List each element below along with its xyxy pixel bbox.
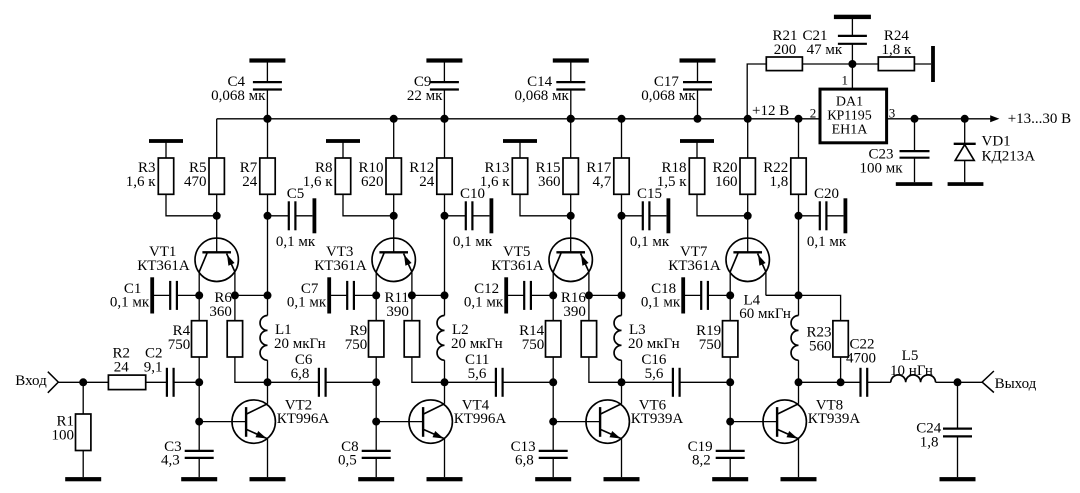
wire R20 bus to R21 (747, 64, 766, 119)
label +13...30 В (1008, 111, 1071, 127)
inductor L4 (739, 293, 798, 383)
resistor R23 (799, 295, 849, 382)
capacitor C6 (268, 352, 377, 397)
ground C12 (504, 277, 508, 313)
ground above R13 (503, 139, 537, 143)
pin 3 (889, 105, 896, 120)
ground C18 (681, 277, 685, 313)
resistor R20 (712, 119, 755, 216)
svg-text:24: 24 (242, 174, 258, 190)
capacitor C10 (445, 186, 493, 250)
wire (802, 63, 852, 65)
ground C20 (844, 198, 848, 233)
svg-text:4,3: 4,3 (161, 452, 180, 468)
transistor VT3 КТ361А (314, 216, 415, 296)
wire (798, 216, 800, 296)
svg-text:2: 2 (810, 105, 817, 120)
node R8 R10 junction (390, 212, 398, 220)
svg-text:20 мкГн: 20 мкГн (628, 336, 680, 352)
wire (444, 216, 446, 296)
svg-text:5,6: 5,6 (645, 366, 664, 382)
capacitor C24 (916, 382, 972, 477)
svg-text:470: 470 (184, 174, 207, 190)
svg-text:DA1: DA1 (836, 95, 863, 110)
svg-text:8,2: 8,2 (692, 452, 711, 468)
svg-text:КТ996А: КТ996А (277, 411, 330, 427)
transistor VT4 КТ996А (409, 382, 506, 477)
svg-text:0,5: 0,5 (338, 452, 357, 468)
svg-text:6,8: 6,8 (291, 366, 310, 382)
node bus R12 (441, 115, 449, 123)
capacitor C19 (688, 422, 745, 478)
resistor R19 (696, 295, 738, 382)
node VT1 emitter (231, 291, 239, 299)
node bus R7 (264, 115, 272, 123)
resistor R8 (303, 141, 394, 216)
node R23 bottom (837, 378, 845, 386)
node stage2 output (441, 378, 449, 386)
wire (553, 421, 600, 423)
svg-text:560: 560 (809, 338, 832, 354)
ground C19 (712, 477, 748, 481)
resistor R4 (168, 295, 207, 382)
ground C7 (327, 277, 331, 313)
capacitor C20 (799, 186, 847, 250)
wire +12V bus (217, 118, 820, 120)
svg-text:КТ361А: КТ361А (668, 258, 721, 274)
svg-text:C20: C20 (814, 186, 839, 202)
ground above C4 (249, 58, 285, 62)
wire input to node (58, 381, 108, 383)
svg-text:1,6 к: 1,6 к (480, 174, 511, 190)
svg-text:47 мк: 47 мк (807, 42, 843, 58)
svg-text:0,068 мк: 0,068 мк (641, 88, 696, 104)
node bus R22 (795, 115, 803, 123)
node L L3 top (618, 291, 626, 299)
ground above C21 (834, 15, 871, 19)
node input junction (79, 378, 87, 386)
svg-text:20 мкГн: 20 мкГн (274, 336, 326, 352)
svg-text:750: 750 (699, 337, 722, 353)
wire (267, 216, 269, 296)
transistor VT7 КТ361А (668, 216, 769, 296)
ground R1 (65, 477, 101, 481)
svg-text:750: 750 (168, 337, 191, 353)
svg-text:Выход: Выход (995, 376, 1037, 392)
node VT3 collector (372, 291, 380, 299)
ground C13 (535, 477, 571, 481)
capacitor C2 (144, 346, 199, 397)
capacitor C7 (287, 281, 376, 311)
ground above R3 (149, 139, 183, 143)
svg-text:24: 24 (114, 360, 130, 376)
svg-text:6,8: 6,8 (515, 452, 534, 468)
ground C8 (358, 477, 394, 481)
svg-text:1,8 к: 1,8 к (882, 42, 913, 58)
node R21 C21 R24 junction (848, 60, 856, 68)
capacitor C12 (464, 281, 553, 311)
capacitor C3 (161, 422, 214, 478)
node VT3 emitter (408, 291, 416, 299)
node stage3 output (618, 378, 626, 386)
resistor R2 (108, 346, 145, 390)
resistor R1 (52, 382, 91, 477)
resistor R7 (240, 119, 275, 216)
ground above R8 (326, 139, 360, 143)
node bus C4 (263, 115, 271, 123)
wire DA1 pin1 (851, 64, 853, 89)
svg-text:0,1 мк: 0,1 мк (287, 294, 327, 310)
node R12 C10 junction (441, 212, 449, 220)
node VT2 base (195, 418, 203, 426)
node R13 R15 junction (567, 212, 575, 220)
node VT5 collector (549, 291, 557, 299)
node VD1 top (961, 115, 969, 123)
svg-text:100: 100 (52, 428, 75, 444)
node VT1 collector (195, 291, 203, 299)
svg-text:160: 160 (715, 174, 738, 190)
ground VT2 emitter (250, 477, 286, 481)
transistor VT2 КТ996А (232, 382, 329, 477)
svg-text:1,6 к: 1,6 к (126, 174, 157, 190)
capacitor C18 (641, 281, 730, 311)
capacitor C21 (802, 19, 866, 64)
svg-text:1,6 к: 1,6 к (303, 174, 334, 190)
svg-text:КТ361А: КТ361А (137, 258, 190, 274)
node output junction (954, 378, 962, 386)
node L L2 top (441, 291, 449, 299)
svg-text:0,068 мк: 0,068 мк (515, 88, 570, 104)
capacitor C11 (445, 352, 554, 397)
ground above R18 (680, 139, 714, 143)
resistor R15 (535, 119, 578, 216)
node stage4 output (795, 378, 803, 386)
wire emitter row (589, 294, 622, 296)
svg-text:390: 390 (563, 304, 586, 320)
ground VT6 emitter (604, 477, 640, 481)
node stage2 input (372, 378, 380, 386)
inductor L5 (890, 348, 957, 382)
svg-text:4700: 4700 (846, 350, 876, 366)
node bus C9 (440, 115, 448, 123)
svg-text:0,1 мк: 0,1 мк (110, 294, 150, 310)
transistor VT6 КТ939А (586, 382, 683, 477)
transistor VT1 КТ361А (137, 216, 238, 296)
svg-text:4,7: 4,7 (593, 174, 612, 190)
op-amp DA1 КР1195ЕН1А (820, 89, 887, 143)
svg-text:360: 360 (538, 174, 561, 190)
resistor R12 (409, 119, 452, 216)
wire emitter row (235, 294, 268, 296)
svg-text:C5: C5 (287, 186, 305, 202)
svg-text:0,1 мк: 0,1 мк (276, 234, 316, 250)
inductor L3 (614, 295, 680, 382)
wire (199, 421, 246, 423)
svg-text:КТ939А: КТ939А (631, 411, 684, 427)
wire emitter row stage4 (766, 294, 799, 296)
pin 1 (842, 73, 849, 88)
resistor R6 (209, 290, 267, 383)
svg-text:750: 750 (522, 337, 545, 353)
capacitor C9 (407, 61, 459, 119)
svg-text:60 мкГн: 60 мкГн (739, 306, 791, 322)
svg-text:20 мкГн: 20 мкГн (451, 336, 503, 352)
wire emitter row (412, 294, 445, 296)
svg-text:0,068 мк: 0,068 мк (211, 88, 266, 104)
node stage4 input (726, 378, 734, 386)
resistor R16 (561, 290, 622, 383)
svg-text:1: 1 (842, 73, 849, 88)
resistor R3 (126, 141, 217, 216)
pin 2 (810, 105, 817, 120)
node VT8 base (726, 418, 734, 426)
node bus R17 (618, 115, 626, 123)
inductor L1 (260, 295, 326, 382)
svg-text:КД213А: КД213А (982, 148, 1036, 164)
svg-text:24: 24 (419, 174, 435, 190)
resistor R11 (384, 290, 444, 383)
svg-text:0,1 мк: 0,1 мк (807, 234, 847, 250)
node VT5 emitter (585, 291, 593, 299)
ground C3 (181, 477, 217, 481)
capacitor C16 (622, 352, 731, 397)
transistor VT8 КТ939А (763, 382, 860, 477)
svg-text:+12 В: +12 В (752, 103, 789, 119)
ground C23 (896, 182, 933, 186)
node R3 R5 junction (213, 212, 221, 220)
resistor R17 (586, 119, 629, 216)
svg-text:L5: L5 (902, 348, 919, 364)
wire base row (375, 382, 377, 421)
node L L4 top (795, 291, 803, 299)
ground C5 (313, 198, 317, 233)
ground C10 (490, 198, 494, 233)
svg-text:390: 390 (386, 304, 409, 320)
node stage3 input (549, 378, 557, 386)
resistor R13 (480, 141, 571, 216)
resistor R5 (184, 119, 224, 216)
wire base row (198, 382, 200, 421)
resistor R10 (358, 119, 401, 216)
node VT6 base (549, 418, 557, 426)
node R18 R20 junction (744, 212, 752, 220)
svg-text:ЕН1А: ЕН1А (832, 123, 869, 138)
svg-text:9,1: 9,1 (144, 360, 163, 376)
svg-text:0,1 мк: 0,1 мк (641, 294, 681, 310)
svg-text:0,1 мк: 0,1 мк (464, 294, 504, 310)
capacitor C23 (859, 119, 929, 182)
resistor R14 (519, 295, 561, 382)
wire (621, 216, 623, 296)
node bus R20 (744, 115, 752, 123)
capacitor C1 (110, 281, 199, 311)
wire (730, 421, 777, 423)
svg-text:КТ939А: КТ939А (808, 411, 861, 427)
wire (958, 381, 983, 383)
ground above C17 (680, 58, 716, 62)
input connector Вход (15, 372, 58, 393)
svg-text:750: 750 (345, 337, 368, 353)
node bus R10 (390, 115, 398, 123)
node R22 C20 junction (795, 212, 803, 220)
wire base row (552, 382, 554, 421)
label +12 В (752, 103, 789, 119)
output connector Выход (982, 371, 1037, 393)
capacitor C17 (641, 61, 712, 119)
svg-text:1,5 к: 1,5 к (657, 174, 688, 190)
svg-text:200: 200 (774, 42, 797, 58)
ground VD1 (948, 182, 984, 186)
capacitor C5 (268, 186, 316, 250)
node L L1 top (264, 291, 272, 299)
svg-text:Вход: Вход (15, 373, 47, 389)
capacitor C22 (799, 337, 891, 397)
node R7 C5 junction (264, 212, 272, 220)
ground C24 (940, 477, 976, 481)
svg-text:100 мк: 100 мк (859, 160, 903, 176)
resistor R24 (852, 28, 931, 71)
node stage1 input (195, 378, 203, 386)
node C23 top (911, 115, 919, 123)
ground above C9 (426, 58, 462, 62)
capacitor C4 (211, 61, 282, 119)
svg-text:10 нГн: 10 нГн (890, 363, 933, 379)
ground R24 (931, 46, 935, 82)
svg-text:VD1: VD1 (982, 134, 1011, 150)
resistor R9 (345, 295, 384, 382)
svg-text:1,8: 1,8 (920, 435, 939, 451)
svg-text:360: 360 (209, 304, 232, 320)
transistor VT5 КТ361А (491, 216, 592, 296)
ground VT4 emitter (427, 477, 463, 481)
svg-text:22 мк: 22 мк (407, 88, 443, 104)
svg-text:+13...30 В: +13...30 В (1008, 111, 1071, 127)
svg-text:5,6: 5,6 (468, 366, 487, 382)
diode VD1 КД213А (954, 119, 1036, 182)
resistor R18 (657, 141, 748, 216)
node bus C14 (567, 115, 575, 123)
wire emitter row (766, 294, 799, 296)
inductor L2 (437, 295, 503, 382)
capacitor C15 (622, 186, 670, 250)
ground C1 (150, 277, 154, 313)
wire DA1 output (887, 115, 1000, 122)
wire (376, 421, 423, 423)
capacitor C13 (511, 422, 568, 478)
ground above C14 (553, 58, 589, 62)
node VT7 collector (726, 291, 734, 299)
ground C15 (667, 198, 671, 233)
resistor R22 (763, 119, 806, 216)
node VT4 base (372, 418, 380, 426)
node stage1 output (264, 378, 272, 386)
node bus C17 (694, 115, 702, 123)
node R17 C15 junction (618, 212, 626, 220)
svg-text:1,8: 1,8 (770, 174, 789, 190)
node bus R15 (567, 115, 575, 123)
svg-text:0,1 мк: 0,1 мк (453, 234, 493, 250)
capacitor C8 (338, 422, 391, 478)
svg-text:КТ361А: КТ361А (491, 258, 544, 274)
wire base row (729, 382, 731, 421)
svg-text:620: 620 (361, 174, 384, 190)
svg-text:КТ361А: КТ361А (314, 258, 367, 274)
capacitor C14 (515, 61, 586, 119)
resistor R21 (766, 28, 802, 71)
svg-text:0,1 мк: 0,1 мк (630, 234, 670, 250)
svg-text:КР1195: КР1195 (827, 109, 872, 124)
ground VT8 emitter (781, 477, 817, 481)
svg-text:КТ996А: КТ996А (454, 411, 507, 427)
